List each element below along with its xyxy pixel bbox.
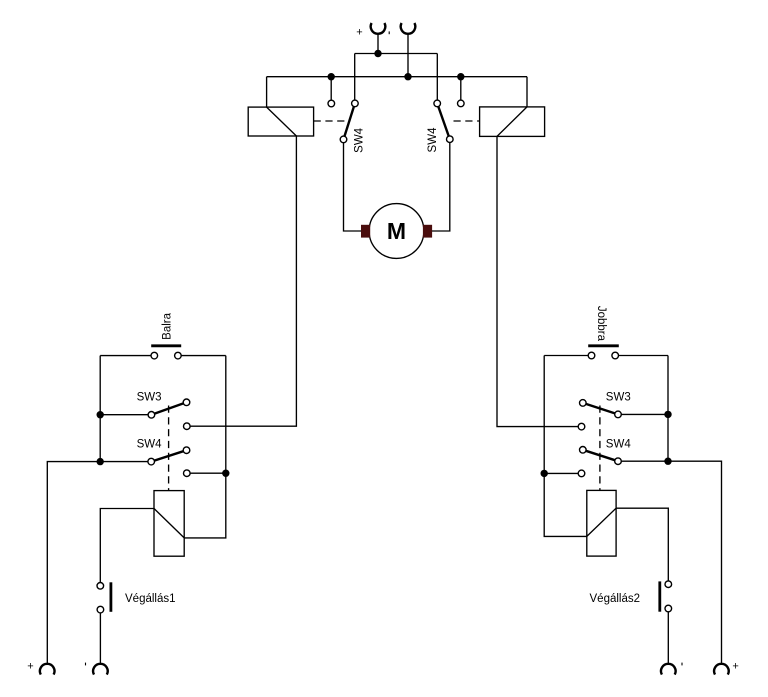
terminal T6 (+ supply, bottom far right) [714, 664, 729, 675]
terminal T5 (return, bottom right) [661, 664, 676, 675]
motor M1 [361, 204, 432, 259]
node right rail / SW4 [664, 458, 671, 465]
svg-text:+: + [356, 26, 362, 38]
label - of T4 [85, 663, 87, 666]
relay K3 coil (lower left) [154, 491, 184, 557]
switch SW4 (top left changeover) [328, 100, 358, 143]
wire SW4 left to motor [344, 139, 362, 231]
wire right rail (Balra button right leg) [225, 356, 227, 474]
dashed link SW3/SW4 to relay K4 [599, 406, 601, 491]
node left rail / SW4 contact [541, 470, 548, 477]
wire K2 to SW3-right normally-closed contact [497, 136, 582, 426]
terminal T3 (+ supply, bottom far left) [40, 664, 55, 675]
terminal T4 (return, bottom left) [93, 664, 108, 675]
switch SW3 (lower right) [578, 400, 621, 430]
label - of T2 [388, 31, 390, 34]
terminal T1 (+ supply, top left) [371, 23, 386, 54]
wire K3 to Vegallas1 [100, 509, 154, 586]
wire K4 to Vegallas2 [616, 508, 668, 584]
wire bus (return net, y=76.7) [267, 77, 527, 107]
wire SW3 left common feed [100, 414, 151, 416]
svg-text:+: + [27, 661, 33, 673]
wire far left (+ feed to SW4 common) [47, 462, 151, 664]
svg-text:SW3: SW3 [606, 391, 631, 403]
switch SW3 (lower left) [148, 399, 190, 430]
dashed link SW3/SW4 to relay K3 [168, 406, 170, 491]
svg-text:Balra: Balra [162, 312, 174, 339]
svg-text:SW4: SW4 [427, 127, 439, 153]
terminal T2 (supply return, top right) [401, 23, 416, 77]
svg-text:Végállás2: Végállás2 [590, 593, 641, 605]
node bus-stub right [457, 73, 464, 80]
pushbutton Jobbra [544, 346, 668, 359]
wire SW4 right to motor [432, 139, 450, 231]
node right rail / SW3 [664, 411, 671, 418]
wire right rail (Jobbra) [667, 356, 669, 462]
wire left rail (Balra button left leg) [99, 356, 101, 462]
node W1-T1 junction [374, 50, 381, 57]
node bus-stub left [328, 73, 335, 80]
dashed link K2 to SW4 right [454, 120, 480, 122]
node right rail / SW4 contact [222, 470, 229, 477]
limit switch Végállás2 [660, 581, 672, 664]
svg-text:+: + [732, 661, 738, 673]
node bus-T2 [404, 73, 411, 80]
switch SW4 (lower right) [544, 447, 621, 477]
svg-text:Jobbra: Jobbra [595, 306, 607, 342]
switch SW4 (top right changeover) [434, 100, 464, 142]
wire left rail (Jobbra) to relay K4 [544, 356, 587, 537]
svg-text:SW4: SW4 [353, 127, 365, 153]
node left rail / SW3 [97, 411, 104, 418]
relay K1 coil (top left) [248, 107, 313, 136]
switch SW4 (lower left) [148, 447, 226, 477]
svg-text:M: M [387, 218, 406, 244]
svg-text:SW4: SW4 [606, 438, 632, 450]
wire K1 to SW3-left normally-closed contact [187, 136, 297, 426]
limit switch Végállás1 [97, 582, 111, 663]
wire W1 (+ feed, y=53.5) [355, 54, 438, 104]
dashed link K1 to SW4 left [314, 120, 346, 122]
svg-text:SW4: SW4 [137, 438, 163, 450]
wire far right (+ feed to SW4 common) [618, 461, 722, 663]
wire K3 to right rail [184, 473, 226, 538]
svg-text:SW3: SW3 [137, 391, 162, 403]
svg-text:Végállás1: Végállás1 [125, 593, 176, 605]
pushbutton Balra [100, 346, 226, 359]
relay K4 coil (lower right) [587, 490, 616, 556]
node left rail / SW4 [97, 458, 104, 465]
label - of T5 [681, 663, 683, 666]
wire SW3 right common feed [618, 413, 668, 415]
relay K2 coil (top right) [480, 107, 545, 136]
